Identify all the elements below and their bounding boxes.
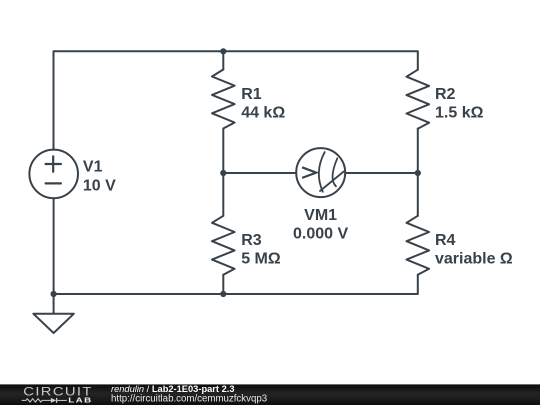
- wire top: V1 top to R2 top: [54, 51, 418, 149]
- node: R3 bottom junction: [220, 291, 226, 297]
- resistor R1: [212, 51, 235, 128]
- voltage source V1: [29, 150, 78, 199]
- label R1 / value 44 kOhm: [241, 86, 285, 122]
- svg-text:R2: R2: [435, 86, 456, 103]
- svg-text:VM1: VM1: [304, 207, 337, 224]
- svg-text:5 MΩ: 5 MΩ: [241, 251, 281, 268]
- wire middle left: R1 bottom node to VM1: [223, 172, 296, 174]
- svg-text:R4: R4: [435, 232, 456, 249]
- node: R1/R3/VM1 junction: [220, 170, 226, 176]
- node: V1/ground junction: [51, 291, 57, 297]
- svg-text:http://circuitlab.com/cemmuzfc: http://circuitlab.com/cemmuzfckvqp3: [111, 394, 267, 405]
- wire bottom: ground node to R4 bottom: [54, 198, 418, 294]
- wire middle right: VM1 to R4 top node: [345, 172, 418, 174]
- resistor R3: [212, 216, 235, 275]
- svg-text:R1: R1: [241, 86, 262, 103]
- svg-text:variable Ω: variable Ω: [435, 251, 513, 268]
- label VM1 / value 0.000 V: [293, 207, 348, 243]
- svg-text:10 V: 10 V: [83, 177, 116, 194]
- wire R1-R3 column: [222, 129, 224, 216]
- svg-text:1.5 kΩ: 1.5 kΩ: [435, 105, 484, 122]
- label V1 / value 10 V: [83, 159, 116, 195]
- svg-text:0.000 V: 0.000 V: [293, 226, 348, 243]
- ground: [33, 294, 74, 333]
- wire R2 bottom to R4: [417, 129, 419, 216]
- footer title text: [111, 384, 267, 405]
- node: R2/R4/VM1 junction: [415, 170, 421, 176]
- svg-text:V1: V1: [83, 159, 103, 176]
- svg-text:rendulin / Lab2-1E03-part 2.3: rendulin / Lab2-1E03-part 2.3: [111, 384, 235, 394]
- footer bar: [0, 384, 540, 405]
- svg-text:44 kΩ: 44 kΩ: [241, 105, 285, 122]
- CircuitLab logo: [22, 384, 93, 404]
- svg-text:LAB: LAB: [68, 396, 92, 405]
- wire R3 bottom stub: [222, 275, 224, 294]
- label R4 / value variable Ohm: [435, 232, 513, 268]
- label R2 / value 1.5 kOhm: [435, 86, 484, 122]
- resistor R2: [407, 70, 430, 129]
- node: R1 top junction: [220, 48, 226, 54]
- resistor R4: [407, 216, 430, 275]
- svg-text:R3: R3: [241, 232, 262, 249]
- voltmeter VM1: [296, 148, 345, 197]
- label R3 / value 5 MOhm: [241, 232, 281, 268]
